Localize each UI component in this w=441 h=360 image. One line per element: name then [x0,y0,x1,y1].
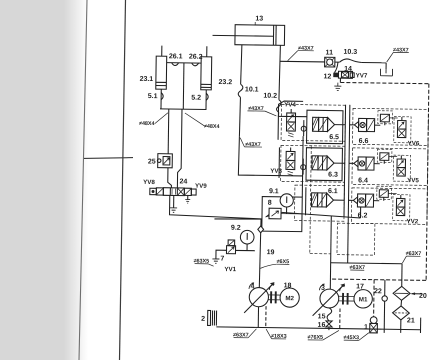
valve 6.2 [353,197,357,204]
pilot box right [350,73,354,78]
wire top bus [167,62,201,64]
title block line [84,157,133,160]
svg-text:18: 18 [284,282,292,289]
check ball row2 [302,159,304,175]
cartridge YV3 [286,151,295,160]
main pressure line P1 [344,105,346,217]
wire pipe left down [167,109,170,154]
svg-text:26.1: 26.1 [169,53,183,60]
cylinder 23.2 rod [206,46,208,56]
motor M1 [354,289,373,308]
valve YV1 [226,246,235,254]
wire to valve 11 [280,60,325,63]
svg-text:YV4: YV4 [284,101,296,108]
wire drain right [187,196,189,200]
svg-text:19: 19 [267,249,275,256]
valve 24 center square ports [171,189,173,195]
wire drain center [173,195,175,207]
cylinder 23.1 rod [161,46,163,56]
check valve 16 [326,321,332,324]
svg-text:9.2: 9.2 [231,225,241,232]
pipe 10.2 [279,45,280,100]
dashed drain line right [340,82,428,83]
cylinder 23.2 [201,57,212,90]
gauge 9.1 box [262,197,302,232]
dashed frame YV2 [393,195,410,221]
hose 10.3 [335,61,340,63]
pump 3 [320,289,339,308]
drawing frame left border [120,0,126,360]
cartridge YV2 [396,198,405,207]
row2 wires [334,162,345,164]
solenoid YV9 box [184,188,191,195]
svg-text:10.2: 10.2 [263,93,277,100]
dashed frame pilot row2 [377,149,392,162]
wire pipe right down [177,109,182,188]
svg-text:23.2: 23.2 [219,79,233,86]
valve 6.1 [311,193,317,207]
valve 12 nub [333,73,338,78]
isolator valve 8 [269,208,281,219]
tank right [380,69,392,76]
wire center drop [182,63,185,109]
svg-text:8: 8 [268,200,272,207]
svg-text:M2: M2 [285,295,294,302]
svg-text:YV5: YV5 [407,177,419,184]
svg-text:6.2: 6.2 [358,212,368,219]
svg-text:2: 2 [201,316,205,323]
valve 6.2 drain stub [359,207,361,218]
gauge 9.2 [240,230,254,244]
svg-text:12: 12 [324,73,332,80]
riser to pump4 [260,219,262,226]
manifold solid boundary row1 [307,110,343,143]
check ball row1 [303,120,305,136]
gauge stem [246,244,248,251]
tank right [185,200,190,204]
wire L2 [281,212,360,218]
wire to tank [216,250,227,259]
valve 14 body [338,71,352,78]
svg-text:YV3: YV3 [270,168,282,175]
pilot valve row3 [379,190,388,198]
svg-text:22: 22 [374,288,382,295]
wire long line to riser [169,196,261,219]
svg-text:5.2: 5.2 [191,95,201,102]
node diamond [258,226,264,233]
wire drain 14 [339,78,341,82]
dashed frame YV5 [393,155,410,181]
tank center [170,208,177,213]
valve 24 body [163,188,184,196]
row1 wires [335,124,346,126]
hose 26.1 [172,63,179,66]
svg-text:YV6: YV6 [408,140,420,147]
wire [236,249,255,251]
dashed frame YV6 [394,117,411,143]
svg-text:14: 14 [344,66,352,73]
svg-text:3: 3 [321,285,325,292]
manifold dashed boxes row1 [281,104,345,141]
gauge 9.1 [280,194,293,207]
svg-text:15: 15 [318,313,326,320]
svg-text:17: 17 [356,283,364,290]
cylinder 23.1 [156,56,167,89]
svg-text:6.4: 6.4 [358,177,368,184]
svg-text:6.5: 6.5 [329,134,339,141]
coupling M2 [269,294,281,296]
pump 4 [249,287,268,306]
filter feed line [331,262,402,265]
svg-text:5.1: 5.1 [148,93,158,100]
valve 6.3 [312,156,318,170]
svg-text:20: 20 [419,293,427,300]
pump3 riser [330,216,331,290]
manifold dashed boxes row3 [294,185,344,221]
wire left line [214,218,261,219]
cartridge YV5 [397,159,406,168]
CONTENT [138,45,233,188]
manifold dashed boxes row2 [280,145,344,182]
filter 21 [400,300,402,306]
tank under 14 [334,83,341,91]
svg-text:YV8: YV8 [143,179,155,186]
pipe 10.1 [241,45,242,85]
solenoid YV8 box [156,188,163,195]
cylinder 13 [235,25,285,46]
page crease line [79,0,87,360]
dashed frame pilot row1 [378,111,393,124]
svg-text:25: 25 [148,158,156,165]
cartridge YV6 [398,120,407,129]
valve YV1 solenoid [228,240,235,246]
pump 4 suction [257,307,259,328]
motor M2 [280,288,299,307]
svg-text:YV9: YV9 [195,183,207,190]
cartridge YV4 [287,113,296,122]
tank YV1 [212,259,219,263]
manifold solid boundary row2 [306,148,342,181]
svg-text:≠48X4: ≠48X4 [139,121,155,127]
check valve 11 [325,57,335,67]
hose 5.2 [206,93,208,100]
coupling M1 [339,295,354,297]
svg-text:6.6: 6.6 [359,138,369,145]
svg-text:11: 11 [326,49,334,56]
manifold left pipe boundary row1 [278,101,303,140]
svg-text:M1: M1 [359,296,368,303]
pump 3 drain dashed [339,308,341,329]
node 22 [383,280,386,333]
svg-text:10.3: 10.3 [343,49,357,56]
svg-text:≠48X4: ≠48X4 [204,124,220,130]
svg-text:23.1: 23.1 [140,76,154,83]
filter 20 [393,286,410,300]
manifold left pipe boundary row2 [278,147,280,177]
main pressure line P2 [348,105,350,263]
manifold dashed bottom extension [337,223,375,255]
elbow to valve 14 [335,62,338,73]
pilot valve row2 [380,153,389,161]
valve 6.4 [354,160,358,167]
wire 5.2 port [205,90,207,110]
svg-text:26.2: 26.2 [189,54,203,61]
manifold solid edge row3 [305,187,307,215]
svg-text:YV1: YV1 [224,266,236,273]
svg-text:4: 4 [251,283,255,290]
row3 wires [334,199,345,201]
pump 4 drain dashed [265,306,267,328]
valve 24 right square X [178,189,184,195]
svg-text:YV7: YV7 [356,72,368,79]
pilot left box [150,188,157,194]
svg-text:9.1: 9.1 [269,188,279,195]
pilot right box [191,189,196,195]
piston rod 13 [213,34,274,37]
svg-text:24: 24 [180,178,188,185]
tank bus line [216,327,420,330]
wire 5.1 port [160,89,162,109]
bus right vertical [419,318,421,333]
hose 5.1 [161,93,163,100]
svg-text:YV2: YV2 [407,218,419,225]
wire bottom bus [160,108,206,111]
svg-text:7: 7 [220,256,224,263]
svg-text:13: 13 [255,15,263,22]
wire 25 to 24 [168,168,172,188]
valve 25 [158,154,173,168]
hose 26.2 [192,63,199,66]
pilot valve row1 [380,114,389,122]
svg-text:6.1: 6.1 [328,188,338,195]
svg-text:1: 1 [364,324,368,331]
valve 6.5 [312,117,318,131]
wire down to tank [385,63,387,69]
svg-text:21: 21 [407,317,415,324]
cartridge 1 [370,317,377,324]
hose 15 [327,308,332,321]
dashed frame pilot row3 [377,186,392,199]
line from row1 down [301,136,304,197]
valve 6.6 [354,121,358,128]
svg-text:10.1: 10.1 [245,86,259,93]
svg-text:6.3: 6.3 [328,172,338,179]
dashed pilot line down [310,146,311,253]
